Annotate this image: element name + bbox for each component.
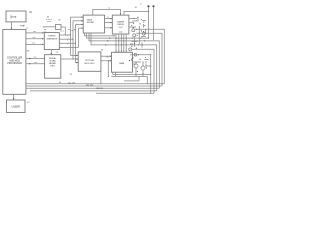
wire D4 bottom loop 2 <box>113 72 151 74</box>
drop from D2 bottom right <box>100 71 102 83</box>
svg-text:MOD DRV: MOD DRV <box>84 63 95 65</box>
block 20: retime E <box>83 15 104 33</box>
wire D1 to D2 <box>61 58 78 60</box>
supply terminal 1 <box>147 5 149 7</box>
verticals F bottom to D4 top <box>115 34 117 52</box>
wire H to bus <box>61 27 65 35</box>
bus wire 4 and riser 4 <box>59 46 78 48</box>
svg-text:LASER: LASER <box>117 20 125 23</box>
svg-text:PROCESSOR: PROCESSOR <box>7 63 22 65</box>
wire A to B <box>11 22 13 29</box>
vertical from D2-D4 wire down <box>107 61 109 77</box>
bus line 1 <box>26 83 164 85</box>
upper cluster specks <box>133 18 134 19</box>
glyph inside box A <box>11 15 16 18</box>
svg-text:GENERATOR: GENERATOR <box>46 37 58 40</box>
loop wire L5 <box>132 49 154 93</box>
bus line 3 <box>26 87 159 89</box>
bus wire 3 and riser 3 <box>59 42 75 44</box>
block 12: controller B <box>3 29 26 94</box>
svg-text:xxx: xxx <box>33 37 36 39</box>
wire E to F 2 <box>105 22 112 24</box>
transistor Q4 <box>129 48 132 51</box>
bus ticks and labels <box>67 34 69 44</box>
wire B to D1 lower <box>26 63 45 65</box>
svg-text:38: 38 <box>70 74 72 76</box>
wire E drop 3 long <box>89 33 159 88</box>
svg-text:REG: REG <box>51 66 56 68</box>
svg-text:ARRAY: ARRAY <box>49 62 56 65</box>
loop wire L2 <box>136 33 162 86</box>
svg-text:LASER: LASER <box>12 105 20 108</box>
wire D4 right <box>133 54 151 56</box>
wire B to C 3 <box>26 43 43 45</box>
block 30: laser driver F <box>112 15 129 34</box>
svg-text:OPTICAL: OPTICAL <box>85 59 95 62</box>
wire B to G <box>13 94 15 99</box>
block 32: mod driver D2 <box>78 52 101 71</box>
wire lower left <box>124 80 139 82</box>
svg-text:xxx: xxx <box>33 31 36 33</box>
rail loop down to bus <box>146 76 148 83</box>
small box H <box>56 24 62 29</box>
svg-text:CONTROLLER: CONTROLLER <box>7 57 23 59</box>
wire C to D1 <box>50 50 52 54</box>
wire D2 to D4 upper <box>101 55 111 57</box>
transistor Q2 <box>133 34 136 37</box>
svg-text:xxx xxx: xxx xxx <box>86 85 94 87</box>
supply wire 1 <box>148 7 150 38</box>
loop wire L1 <box>135 29 164 83</box>
supply terminal 2 <box>152 5 154 7</box>
cluster stub wires <box>130 30 146 48</box>
wire E to F 1 <box>105 18 112 20</box>
wire E top to F top <box>93 10 121 16</box>
supply wire 2 <box>153 7 155 40</box>
wire Q6 to vertical <box>145 65 151 67</box>
svg-text:BIAS: BIAS <box>119 62 124 65</box>
svg-text:IN DAC: IN DAC <box>49 60 56 63</box>
block 36: bias D4 <box>112 52 133 72</box>
transistor Q5 <box>134 64 138 68</box>
wire into H <box>43 26 56 28</box>
small arrow mark <box>20 25 24 27</box>
wires F right <box>129 18 137 20</box>
wire E drop 1 <box>85 33 115 36</box>
small circle on wire <box>134 53 137 56</box>
svg-text:TIMING: TIMING <box>48 36 56 38</box>
emitter wires and rail <box>111 68 147 81</box>
svg-text:DATA: DATA <box>87 19 93 22</box>
cluster junction specks <box>133 27 134 28</box>
block 14: input box A <box>6 11 26 22</box>
wire B to C 2 <box>26 38 43 40</box>
svg-text:xx: xx <box>107 16 109 18</box>
wire B to D1 upper <box>26 57 45 59</box>
bus line 5 <box>96 92 154 94</box>
cluster verticals <box>138 26 140 44</box>
lower cluster stubs <box>132 59 149 67</box>
svg-text:xxx xx: xxx xx <box>96 88 103 90</box>
bus line 2 <box>26 85 162 87</box>
wire D2 to D4 lower <box>101 60 111 62</box>
wire E to F 3 <box>105 27 112 29</box>
svg-text:xx x: xx x <box>60 31 64 33</box>
lower cluster specks <box>130 54 131 55</box>
svg-text:xxx: xxx <box>34 62 37 64</box>
block 42: bottom box G <box>7 100 26 113</box>
svg-text:xx: xx <box>140 4 142 6</box>
wire D4 bottom drop to rail <box>114 72 116 76</box>
bus wire 2 and riser 2 <box>59 38 73 40</box>
vertical right inner <box>150 55 152 94</box>
svg-text:xxx: xxx <box>34 57 37 59</box>
wire E drop 2 to supply1 <box>87 33 149 38</box>
svg-text:AND MOD: AND MOD <box>9 59 20 62</box>
svg-text:xx: xx <box>108 8 110 10</box>
wire B to C 1 <box>26 32 43 34</box>
svg-text:44a 44b: 44a 44b <box>68 82 75 84</box>
svg-text:DRIVE: DRIVE <box>117 24 124 26</box>
block 28: timing generator C <box>44 33 59 50</box>
crossing dots <box>116 38 117 39</box>
bus wire 1 and riser 1 <box>59 34 70 36</box>
base wire <box>133 62 142 64</box>
block 24: dac array D1 <box>45 55 61 78</box>
transistor Q6 <box>141 66 145 70</box>
svg-text:RETIME: RETIME <box>87 22 95 24</box>
svg-text:xxxx: xxxx <box>119 32 123 34</box>
svg-text:SERIAL: SERIAL <box>49 57 57 60</box>
wire E drop 4 long <box>91 33 157 91</box>
transistor Q1 <box>132 29 135 32</box>
transistor Q3 <box>142 32 145 35</box>
bus line 4 <box>30 90 157 92</box>
svg-text:xxxx: xxxx <box>47 21 51 23</box>
wire F top to supply 1 <box>124 11 149 15</box>
svg-text:xxx: xxx <box>32 43 35 45</box>
